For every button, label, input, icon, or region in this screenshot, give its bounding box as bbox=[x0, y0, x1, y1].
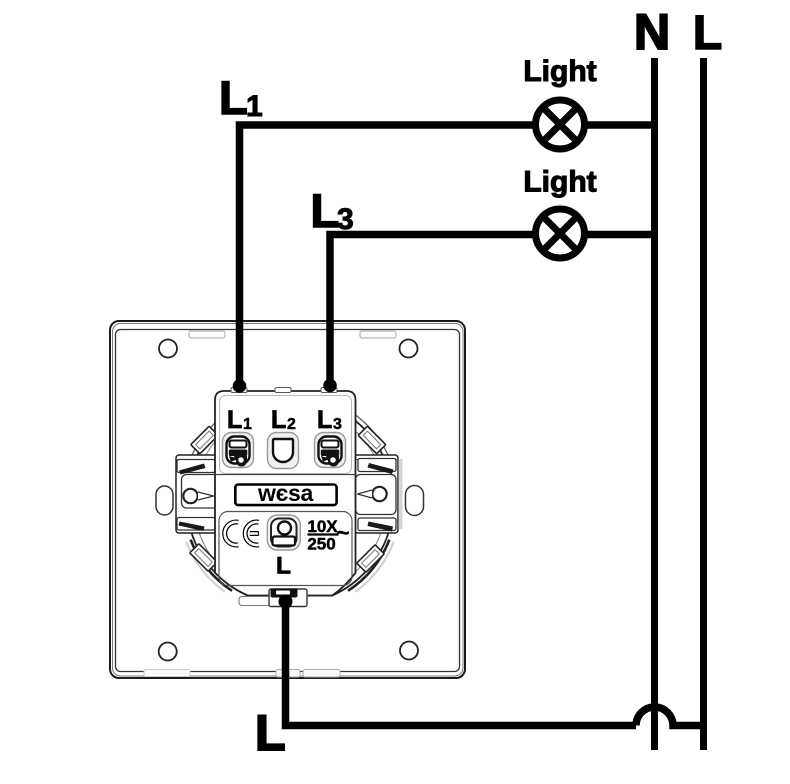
hatch mark upper-left bbox=[191, 426, 219, 454]
junction dot at switch L terminal bbox=[279, 595, 293, 609]
block top bump left bbox=[231, 388, 247, 393]
svg-text:1: 1 bbox=[243, 416, 252, 433]
lamp E1 circle bbox=[536, 100, 585, 149]
frame arc arm NW bbox=[189, 414, 227, 463]
switch plate inner face bbox=[116, 330, 460, 672]
claw teeth left-lower bbox=[177, 518, 215, 531]
terminal socket L3 bbox=[315, 433, 346, 468]
wesa logo box bbox=[235, 485, 336, 506]
claw teeth right-upper bbox=[358, 459, 396, 472]
CE mark E bbox=[245, 522, 259, 545]
svg-text:L: L bbox=[227, 406, 242, 434]
block divider above wesa bbox=[215, 474, 356, 476]
svg-text:L: L bbox=[693, 7, 722, 60]
svg-text:2: 2 bbox=[287, 416, 296, 433]
lamp E2 circle bbox=[536, 209, 585, 258]
svg-text:N: N bbox=[634, 4, 670, 60]
claw screw left bbox=[183, 489, 197, 503]
wire from L1 terminal to lamp E1 and N bbox=[240, 125, 652, 386]
svg-text:250: 250 bbox=[307, 535, 335, 554]
wire from L3 terminal to lamp E2 and N bbox=[330, 235, 651, 386]
plate top tab right bbox=[360, 331, 396, 338]
claw screw right bbox=[372, 487, 386, 501]
junction dot at L1 terminal bbox=[233, 379, 247, 393]
hatch mark upper-right bbox=[358, 426, 386, 454]
claw bracket right bbox=[356, 475, 397, 515]
claw bracket left bbox=[182, 475, 219, 509]
bottom mounting tab wide bbox=[239, 597, 306, 606]
frame band inner top edge bbox=[176, 459, 398, 461]
svg-text:L: L bbox=[271, 406, 286, 434]
switch plate outer frame bbox=[110, 321, 465, 678]
mechanism round box inner circle (flat bottom) bbox=[194, 406, 386, 590]
fixing screw box bbox=[267, 515, 300, 550]
wire from switch L terminal down and right to supply L bbox=[286, 602, 637, 726]
common terminal bracket bottom bbox=[269, 589, 307, 607]
svg-text:Light: Light bbox=[523, 55, 596, 88]
corner screw hole bottom-right bbox=[400, 642, 418, 660]
plate top tab left bbox=[189, 331, 225, 338]
fixing screw slot bar bbox=[273, 537, 296, 546]
mechanism round box outer circle (flat bottom) bbox=[187, 398, 394, 596]
claw teeth left-upper bbox=[177, 460, 215, 473]
corner screw hole top-right bbox=[400, 340, 418, 358]
CE mark C bbox=[225, 522, 239, 545]
svg-text:3: 3 bbox=[337, 203, 354, 236]
frame end shadow right bbox=[399, 459, 403, 529]
frame arc arm NE bbox=[354, 414, 392, 463]
side oval hole left bbox=[156, 486, 173, 515]
claw teeth right-lower bbox=[358, 518, 396, 531]
svg-text:L: L bbox=[276, 553, 291, 580]
terminal socket L2 bbox=[268, 433, 299, 469]
svg-text:1: 1 bbox=[246, 90, 263, 123]
svg-text:L: L bbox=[255, 705, 286, 761]
common terminal screw dark bbox=[271, 589, 298, 598]
svg-text:Light: Light bbox=[523, 166, 596, 199]
frame arc arm SW bbox=[191, 540, 232, 591]
lamp E1 cross bbox=[543, 107, 577, 141]
lamp E2 cross bbox=[543, 216, 577, 250]
svg-text:L: L bbox=[317, 406, 332, 434]
frame arc arm SE bbox=[348, 540, 389, 591]
hatch mark lower-left bbox=[190, 544, 218, 572]
plate bottom tab left bbox=[276, 670, 300, 678]
wire N vertical line bbox=[651, 58, 658, 750]
wire hop over N line bbox=[636, 707, 704, 726]
block top bump mid bbox=[275, 388, 291, 393]
block lower compartment outline bbox=[219, 512, 352, 586]
svg-text:~: ~ bbox=[336, 520, 349, 546]
svg-text:wєsa: wєsa bbox=[257, 480, 313, 506]
mounting frame band bbox=[176, 455, 398, 533]
svg-text:3: 3 bbox=[333, 416, 342, 433]
block top bump right bbox=[321, 388, 337, 393]
plate bottom tab right bbox=[303, 670, 340, 678]
terminal block body (merges into round box flat bottom) bbox=[215, 391, 356, 596]
block top compartment inner outline bbox=[220, 396, 352, 474]
side oval hole right bbox=[406, 486, 424, 516]
svg-text:10X: 10X bbox=[307, 517, 338, 536]
svg-text:L: L bbox=[219, 71, 248, 124]
junction dot at L3 terminal bbox=[323, 379, 337, 393]
svg-text:L: L bbox=[311, 184, 340, 237]
plate bottom tab far-left faint bbox=[144, 670, 190, 677]
corner screw hole top-left bbox=[159, 340, 177, 358]
wire L vertical line bbox=[700, 58, 707, 750]
corner screw hole bottom-left bbox=[159, 643, 177, 661]
fixing screw head bbox=[278, 522, 291, 535]
hatch mark lower-right bbox=[357, 545, 385, 573]
terminal socket L1 bbox=[223, 433, 254, 468]
